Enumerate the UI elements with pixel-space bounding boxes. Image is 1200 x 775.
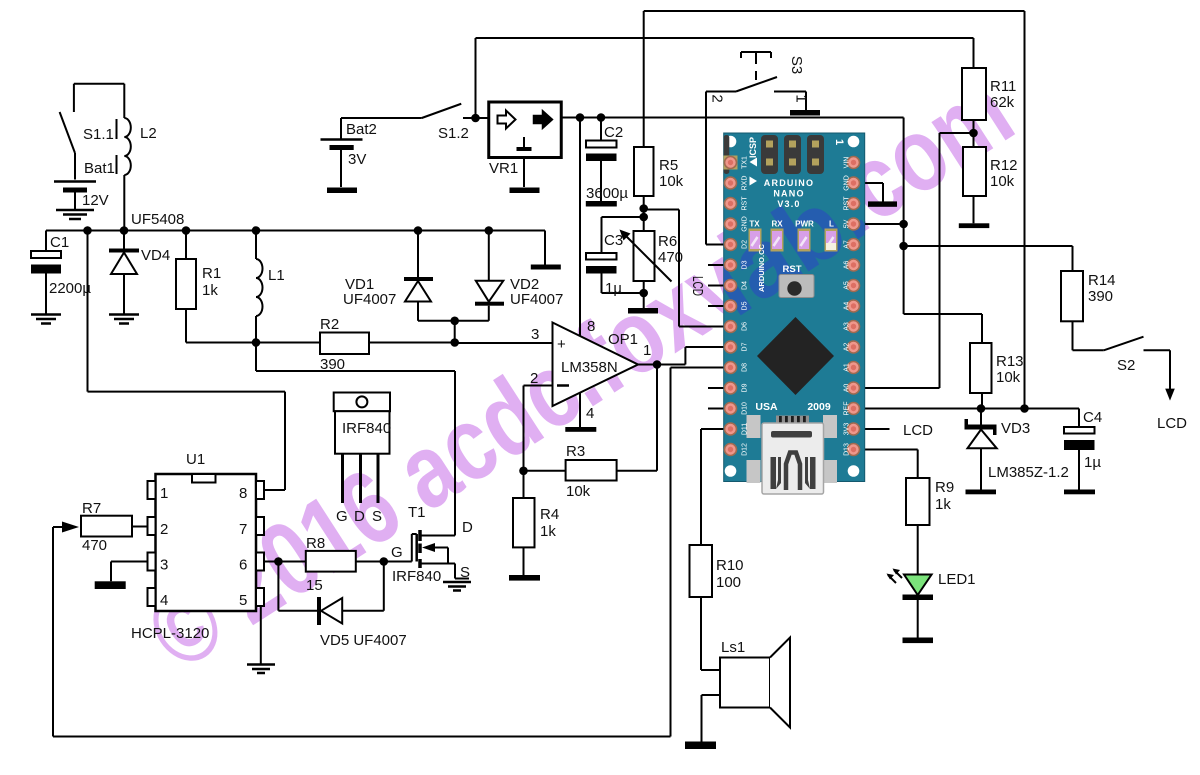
capacitor C2 (586, 118, 628, 203)
svg-text:S3: S3 (788, 56, 805, 74)
svg-text:R1: R1 (202, 265, 221, 282)
junction dots REF rail (977, 404, 986, 413)
ground Bat1 (56, 210, 94, 219)
svg-text:R13: R13 (996, 353, 1024, 370)
diode VD2 (475, 231, 563, 321)
svg-text:R11: R11 (990, 78, 1016, 95)
wire VD1-VD2 bottoms (418, 320, 489, 322)
ground VD3 (966, 490, 997, 495)
svg-text:C2: C2 (604, 124, 623, 141)
junction dot opamp output (653, 360, 662, 369)
svg-text:3600µ: 3600µ (586, 185, 628, 202)
svg-text:OP1: OP1 (608, 331, 638, 348)
svg-text:TX: TX (749, 220, 760, 229)
svg-text:NANO: NANO (773, 189, 804, 199)
LED LED1 (887, 569, 976, 638)
svg-text:D: D (354, 508, 365, 525)
wire 5V to R14 (904, 246, 1073, 271)
svg-text:2009: 2009 (807, 401, 831, 413)
svg-text:4: 4 (160, 592, 168, 609)
svg-text:S1.1: S1.1 (83, 126, 114, 143)
battery Bat1 (54, 125, 115, 209)
svg-text:LED1: LED1 (938, 571, 976, 588)
svg-text:RST: RST (742, 196, 749, 211)
resistor R7 (53, 500, 148, 554)
Arduino Nano board (687, 133, 887, 483)
switch S2 (1073, 337, 1188, 432)
ground C2 (586, 201, 617, 207)
svg-text:TX1: TX1 (742, 156, 749, 169)
wire REF rail (860, 408, 1079, 410)
svg-text:REF: REF (844, 402, 851, 416)
svg-text:100: 100 (716, 574, 741, 591)
junction dot R3/R4/pin2 (519, 467, 528, 476)
wire node to opamp pin3 (455, 321, 553, 343)
resistor R8 (306, 535, 356, 594)
svg-text:3: 3 (160, 557, 168, 574)
battery Bat2 (321, 118, 377, 187)
svg-text:1µ: 1µ (1084, 454, 1101, 471)
svg-text:Ls1: Ls1 (721, 639, 745, 656)
svg-text:1µ: 1µ (605, 280, 622, 297)
ground Bat2 (327, 188, 357, 194)
svg-text:1k: 1k (540, 523, 556, 540)
svg-text:C3: C3 (604, 232, 623, 249)
resistor R10 (690, 429, 744, 670)
svg-text:D3: D3 (742, 260, 749, 269)
svg-text:GND: GND (742, 216, 749, 232)
svg-text:6: 6 (239, 557, 247, 574)
junction dots 5V rail (471, 114, 480, 123)
svg-text:RX: RX (771, 220, 783, 229)
svg-text:G: G (391, 544, 403, 561)
svg-text:U1: U1 (186, 451, 205, 468)
junction dots U1 pin6 / R8 (274, 557, 283, 566)
svg-text:D: D (462, 519, 473, 536)
wire R11/R12 node to Arduino A0 (860, 133, 974, 388)
svg-text:RXD: RXD (742, 176, 749, 191)
svg-text:IRF840: IRF840 (392, 568, 441, 585)
svg-text:3V: 3V (348, 151, 366, 168)
wire Bat2 to S1.2 (341, 117, 422, 119)
package drawing IRF840 (334, 393, 392, 526)
capacitor C3 (586, 217, 644, 297)
capacitor C4 (1064, 409, 1102, 490)
svg-text:UF4007: UF4007 (343, 291, 396, 308)
svg-text:VIN: VIN (844, 157, 851, 169)
svg-text:D8: D8 (742, 363, 749, 372)
svg-text:10k: 10k (990, 173, 1015, 190)
svg-text:RST: RST (844, 196, 851, 211)
svg-text:A7: A7 (844, 240, 851, 249)
svg-text:+: + (557, 336, 566, 353)
svg-text:D2: D2 (742, 240, 749, 249)
wire output down to R3 (617, 365, 657, 471)
svg-text:ICSP: ICSP (748, 137, 758, 158)
resistor R14 (1061, 271, 1116, 350)
wire R5/R6 node to Arduino D6 (644, 210, 726, 327)
svg-text:ARDUINO.CC: ARDUINO.CC (757, 244, 766, 292)
ground Ls1 (685, 742, 716, 750)
resistor R2 (320, 316, 369, 373)
wire T1 drain net from L1/R2 node (256, 343, 455, 372)
svg-text:1k: 1k (935, 496, 951, 513)
svg-text:GND: GND (844, 175, 851, 191)
svg-text:VD4: VD4 (141, 247, 170, 264)
svg-text:A2: A2 (844, 343, 851, 352)
svg-text:UF5408: UF5408 (131, 211, 184, 228)
ground R6 (628, 308, 658, 314)
ground C4 (1064, 490, 1095, 495)
diode VD5 (278, 562, 406, 650)
op-amp OP1 (530, 318, 651, 422)
mini-USB connector (762, 416, 824, 495)
ground Arduino GND (868, 201, 897, 206)
wire top feed rail to R11 (476, 38, 974, 68)
svg-text:S2: S2 (1117, 357, 1135, 374)
svg-text:LCD: LCD (903, 422, 933, 439)
pushbutton S3 (706, 52, 810, 110)
junction dots on rails (83, 226, 92, 235)
diode VD3 LM385Z-1.2 (965, 409, 1069, 490)
svg-text:D9: D9 (742, 383, 749, 392)
wire S3 to Arduino D2 (706, 92, 726, 245)
inductor L2 (117, 84, 157, 231)
svg-text:C4: C4 (1083, 409, 1102, 426)
svg-text:HCPL-3120: HCPL-3120 (131, 625, 209, 642)
wire Arduino D13 to R9 (860, 450, 918, 479)
diode VD1 (343, 231, 433, 321)
resistor R12 (963, 147, 1018, 223)
svg-text:IRF840: IRF840 (342, 420, 391, 437)
resistor R9 (906, 478, 954, 575)
wire opamp output to D7 (638, 347, 726, 365)
svg-text:D12: D12 (742, 443, 749, 456)
wire bracket S1.1 to L2 (74, 83, 124, 85)
svg-text:A6: A6 (844, 261, 851, 270)
ground S3 (790, 110, 820, 116)
loudspeaker Ls1 (701, 638, 790, 742)
svg-text:ARDUINO: ARDUINO (764, 178, 814, 188)
svg-text:D5: D5 (742, 301, 749, 310)
svg-text:VD3: VD3 (1001, 420, 1030, 437)
svg-text:10k: 10k (566, 483, 591, 500)
switch S1.2 (422, 104, 489, 142)
svg-text:D6: D6 (742, 322, 749, 331)
wire main 12V rail (46, 230, 545, 232)
ground U1 pin5 (247, 665, 275, 674)
svg-text:L1: L1 (268, 267, 285, 284)
ground bar at rail right end (544, 231, 546, 265)
svg-text:3: 3 (531, 326, 539, 343)
junction dots R5/R6/C3 node (639, 204, 648, 213)
svg-text:2: 2 (709, 94, 726, 102)
ground T1 source (443, 582, 471, 591)
svg-text:RST: RST (783, 264, 802, 275)
ground C1 (31, 315, 61, 324)
svg-text:R2: R2 (320, 316, 339, 333)
svg-text:PWR: PWR (795, 220, 814, 229)
svg-text:C1: C1 (50, 234, 69, 251)
capacitor C1 (31, 231, 91, 314)
wire Arduino 3V3 stub LCD (860, 428, 890, 430)
wire Arduino left stubs D3 D4 D5 D9 D10 (708, 265, 726, 409)
diode VD4 (109, 231, 170, 314)
resistor R5 (634, 11, 684, 231)
ground OP1 pin4 (565, 427, 596, 432)
svg-text:4: 4 (586, 405, 594, 422)
svg-text:R4: R4 (540, 506, 559, 523)
ground LED1 (903, 638, 934, 644)
svg-text:R7: R7 (82, 500, 101, 517)
wire Arduino 5V pad (860, 223, 904, 225)
svg-text:R8: R8 (306, 535, 325, 552)
svg-text:R5: R5 (659, 157, 678, 174)
svg-text:LCD: LCD (689, 276, 706, 296)
wire U1 pin5 to ground (260, 606, 262, 664)
svg-text:Bat2: Bat2 (346, 121, 377, 138)
wire 12V rail to U1 pin8 (88, 231, 286, 491)
svg-text:A0: A0 (844, 384, 851, 393)
svg-text:5: 5 (239, 592, 247, 609)
svg-text:Bat1: Bat1 (84, 160, 115, 177)
svg-text:L2: L2 (140, 125, 157, 142)
svg-text:10k: 10k (996, 369, 1021, 386)
svg-text:10k: 10k (659, 173, 684, 190)
svg-text:S: S (372, 508, 382, 525)
svg-text:15: 15 (306, 577, 323, 594)
svg-text:390: 390 (1088, 288, 1113, 305)
svg-text:S: S (460, 564, 470, 581)
svg-text:G: G (336, 508, 348, 525)
svg-text:S1.2: S1.2 (438, 125, 469, 142)
svg-text:1: 1 (833, 139, 845, 145)
svg-text:L: L (829, 220, 834, 229)
svg-text:470: 470 (82, 537, 107, 554)
resistor R3 (524, 443, 617, 500)
switch S1.1 (60, 84, 114, 180)
svg-text:A4: A4 (844, 302, 851, 311)
resistor R13 (970, 343, 1024, 408)
ground R4 (509, 575, 540, 581)
wire top reference rail (644, 11, 1025, 408)
wire S1.2 node up to top feed rail (475, 38, 477, 118)
svg-text:VR1: VR1 (489, 160, 518, 177)
svg-text:D7: D7 (742, 342, 749, 351)
ground R12 (959, 223, 990, 228)
wire U1 pin6 net (264, 561, 412, 563)
ground VD4 (109, 315, 139, 324)
resistor R1 (176, 231, 221, 343)
optocoupler U1 HCPL-3120 (131, 451, 264, 642)
svg-text:R10: R10 (716, 557, 744, 574)
wire VR1 output 5V rail (561, 117, 903, 119)
wire U1 pin3 to ground (111, 562, 148, 582)
svg-text:7: 7 (239, 521, 247, 538)
svg-text:UF4007: UF4007 (510, 291, 563, 308)
wire opamp pin2 (524, 386, 553, 499)
svg-text:2200µ: 2200µ (49, 280, 91, 297)
wire Arduino GND pad to ground (860, 183, 883, 202)
svg-text:USA: USA (755, 401, 778, 413)
inductor L1 (256, 231, 285, 343)
wire lower rail (186, 342, 455, 344)
svg-text:R3: R3 (566, 443, 585, 460)
svg-text:D10: D10 (742, 402, 749, 415)
svg-text:VD5 UF4007: VD5 UF4007 (320, 632, 407, 649)
svg-text:8: 8 (587, 318, 595, 335)
svg-text:T1: T1 (408, 504, 426, 521)
wire opamp pin4 to ground (579, 393, 581, 427)
svg-text:V3.0: V3.0 (777, 199, 800, 209)
wire VR1 5V rail down right side (904, 118, 982, 344)
svg-text:1: 1 (643, 342, 651, 359)
trimmer resistor R6 (620, 230, 684, 309)
svg-text:1: 1 (793, 94, 810, 102)
svg-text:LM385Z-1.2: LM385Z-1.2 (988, 464, 1069, 481)
wire feedback loop bottom (53, 368, 726, 737)
svg-text:R14: R14 (1088, 272, 1116, 289)
svg-text:5V: 5V (844, 219, 851, 228)
svg-text:A5: A5 (844, 281, 851, 290)
svg-text:62k: 62k (990, 94, 1015, 111)
svg-text:R9: R9 (935, 479, 954, 496)
ground VR1 (510, 188, 540, 194)
svg-text:A1: A1 (844, 363, 851, 372)
svg-text:1: 1 (160, 485, 168, 502)
svg-text:D4: D4 (742, 281, 749, 290)
voltage regulator VR1 (489, 102, 562, 187)
svg-text:D13: D13 (844, 443, 851, 456)
wire opamp pin8 to 5V rail (579, 118, 581, 337)
svg-text:LM358N: LM358N (561, 359, 618, 376)
svg-text:12V: 12V (82, 192, 109, 209)
ground U1 pin3 (95, 581, 126, 589)
svg-text:3V3: 3V3 (844, 423, 851, 436)
svg-text:2: 2 (160, 521, 168, 538)
svg-text:A3: A3 (844, 322, 851, 331)
svg-text:R6: R6 (658, 233, 677, 250)
svg-text:8: 8 (239, 485, 247, 502)
resistor R4 (513, 498, 559, 575)
svg-text:LCD: LCD (1157, 415, 1187, 432)
svg-text:R12: R12 (990, 157, 1018, 174)
resistor R11 (962, 68, 1016, 147)
svg-text:1k: 1k (202, 282, 218, 299)
svg-text:2: 2 (530, 370, 538, 387)
transistor T1 IRF840 (391, 371, 473, 585)
